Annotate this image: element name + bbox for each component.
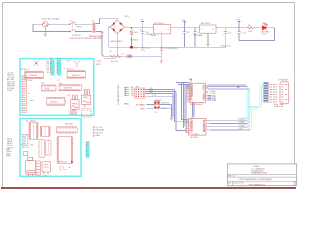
svg-text:PLETCHERS 6502: PLETCHERS 6502	[249, 185, 265, 187]
svg-text:A4-: A4-	[126, 94, 129, 97]
svg-text:RI 1: RI 1	[240, 129, 243, 131]
svg-text:1 ACV AC 115VAC: 1 ACV AC 115VAC	[42, 17, 61, 20]
svg-text:Sheet 1 Plet: Sheet 1 Plet	[234, 182, 245, 185]
svg-text:VR2 78L12: VR2 78L12	[201, 23, 212, 25]
svg-text:D0-D7: D0-D7	[7, 90, 12, 92]
svg-text:A5-: A5-	[126, 102, 129, 105]
svg-text:FREQ: FREQ	[72, 104, 78, 106]
svg-text:KB CLK: KB CLK	[96, 132, 104, 134]
svg-text:10%: 10%	[134, 32, 138, 34]
svg-text:RTS/TXD: RTS/TXD	[161, 102, 170, 104]
svg-text:74LS745: 74LS745	[50, 101, 59, 103]
svg-text:Drawn by: D.L.M.: Drawn by: D.L.M.	[230, 186, 245, 189]
svg-text:CTS1: CTS1	[240, 125, 245, 127]
svg-text:CK0: CK0	[149, 92, 153, 94]
svg-text:angle male: angle male	[274, 106, 283, 108]
svg-text:BRIDGE RECT: BRIDGE RECT	[111, 41, 125, 43]
svg-text:DCD1: DCD1	[240, 119, 245, 121]
svg-text:Tx: Tx	[155, 112, 157, 114]
svg-text:#B00000: #B00000	[130, 39, 139, 41]
svg-text:+5V(0)+12V: +5V(0)+12V	[220, 46, 231, 48]
svg-text:105 v/Ta: 105 v/Ta	[111, 61, 120, 63]
svg-text:100R: 100R	[96, 64, 101, 66]
svg-text:PWR: PWR	[6, 156, 11, 158]
svg-text:(2) +5V: (2) +5V	[96, 127, 103, 129]
svg-text:2: 2	[295, 184, 296, 186]
svg-text:C .1u: C .1u	[241, 32, 246, 34]
svg-text:nn: nn	[65, 169, 67, 171]
svg-text:+12V: +12V	[56, 58, 62, 60]
svg-text:78L05: 78L05	[151, 35, 157, 37]
svg-text:R/W 1: R/W 1	[140, 109, 145, 111]
svg-text:CONN DB9: CONN DB9	[278, 80, 289, 82]
svg-text:MC1489: MC1489	[190, 137, 198, 139]
svg-text:PLETCHERBOARD IN HARDWARE: PLETCHERBOARD IN HARDWARE	[239, 178, 272, 181]
svg-text:TA_KBTx: TA_KBTx	[65, 123, 73, 126]
svg-text:SW.D: SW.D	[77, 27, 83, 29]
svg-text:+5V: +5V	[49, 58, 53, 60]
svg-text:SCHMORR-DECODE: SCHMORR-DECODE	[118, 84, 120, 105]
svg-text:T1.25: T1.25	[261, 33, 267, 35]
svg-text:TRANSFORMER: TRANSFORMER	[89, 35, 104, 38]
svg-text:C13 100UF/25V: C13 100UF/25V	[164, 48, 178, 50]
svg-text:FREQ: FREQ	[83, 97, 89, 99]
svg-text:+12V: +12V	[235, 20, 240, 22]
svg-text:VR1 78L05: VR1 78L05	[154, 23, 165, 25]
svg-text:KB DATA: KB DATA	[96, 129, 105, 132]
svg-text:1 2.2: 1 2.2	[145, 48, 149, 50]
svg-text:+5V 0: +5V 0	[140, 104, 145, 106]
svg-text:74LS374: 74LS374	[64, 88, 73, 90]
svg-text:+ 40k /: + 40k /	[96, 60, 103, 62]
svg-text:0.1u: 0.1u	[228, 32, 232, 34]
svg-text:RDY: RDY	[22, 147, 27, 149]
svg-text:16C450 UART: 16C450 UART	[190, 103, 204, 106]
svg-text:(5V) GND: (5V) GND	[194, 35, 203, 37]
svg-text:DSR1: DSR1	[240, 122, 245, 124]
svg-text:HOMEBREW 6502: HOMEBREW 6502	[251, 172, 267, 174]
svg-text:74HC04: 74HC04	[30, 75, 38, 77]
svg-text:SW SPST: SW SPST	[72, 35, 82, 37]
svg-text:EPROM: EPROM	[59, 162, 67, 164]
svg-text:U 1489: U 1489	[192, 134, 199, 136]
svg-text:LED: LED	[262, 23, 267, 25]
svg-text:LPTR/a: LPTR/a	[161, 108, 168, 110]
svg-text:GND: GND	[96, 135, 101, 137]
svg-text:FILE: ha: FILE: ha	[228, 176, 236, 178]
svg-text:74HC00: 74HC00	[72, 75, 80, 77]
